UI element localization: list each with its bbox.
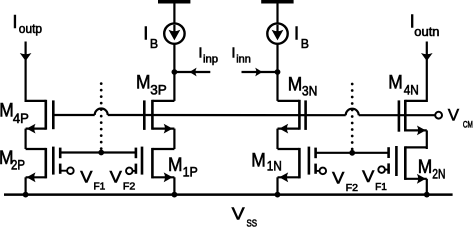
wire: M4P source to M2P drain [25, 129, 27, 149]
wire: node inn down to M3N drain [276, 72, 278, 101]
wire: M1P source to rail [173, 177, 175, 194]
terminal VF1 right-inner [378, 166, 385, 173]
wire Iinn with arrow [242, 68, 278, 77]
svg-text:F2: F2 [346, 182, 359, 194]
label VF1 left [80, 168, 105, 192]
label Iinn [231, 44, 250, 65]
wire: M1N source to rail [276, 177, 278, 194]
label Ioutp [12, 11, 42, 36]
wire Ioutn with arrow [421, 42, 433, 103]
svg-text:I: I [231, 44, 235, 61]
svg-text:F1: F1 [94, 181, 106, 193]
label M3P [136, 73, 167, 98]
label Iinp [198, 44, 218, 65]
label M1P [168, 155, 198, 179]
transistor M4P [26, 100, 54, 134]
node inn junction [275, 69, 281, 75]
supply bar right [261, 0, 293, 4]
node: right gate junction [349, 150, 355, 156]
svg-text:4P: 4P [13, 111, 29, 126]
supply rail VSS [4, 193, 453, 196]
wire: node inp down to M3P drain [173, 72, 175, 101]
svg-text:I: I [143, 23, 148, 44]
transistor M3P [144, 100, 174, 134]
svg-text:F1: F1 [375, 181, 387, 193]
svg-text:SS: SS [247, 217, 258, 227]
label VSS [232, 204, 257, 230]
svg-text:M: M [251, 151, 265, 172]
label VF2 left [110, 168, 136, 192]
label M4N [388, 73, 419, 98]
transistor M4N [399, 100, 427, 136]
node inp junction [172, 69, 178, 75]
label M2N [418, 157, 446, 181]
wire Ioutp with arrow [20, 42, 32, 103]
svg-text:I: I [198, 44, 202, 61]
svg-text:inn: inn [236, 53, 251, 65]
svg-text:3P: 3P [150, 83, 167, 98]
dotted line left [100, 82, 103, 150]
terminal VF1 left [67, 167, 74, 174]
node: rail junction inner-left [172, 192, 178, 198]
label IB left [143, 23, 158, 52]
node: rail junction inner-right [275, 192, 281, 198]
svg-text:M: M [388, 73, 403, 94]
svg-text:2N: 2N [432, 166, 445, 181]
wire: supply to IB right [276, 3, 278, 24]
wire Iinp with arrow [174, 68, 210, 77]
transistor M3N [278, 100, 306, 134]
svg-text:F2: F2 [123, 181, 136, 193]
node: left gate junction [98, 150, 104, 156]
svg-text:2P: 2P [11, 157, 25, 172]
wire: M2N source to rail [426, 179, 428, 195]
supply bar left [158, 0, 190, 4]
label M2P [0, 148, 25, 172]
label M4P [0, 101, 29, 126]
current source IB right [267, 23, 287, 43]
svg-text:V: V [110, 168, 122, 186]
svg-text:V: V [448, 106, 459, 124]
svg-text:inp: inp [203, 53, 218, 65]
svg-text:1N: 1N [267, 159, 282, 174]
svg-text:B: B [150, 36, 158, 51]
wire: IB right to node inn [276, 44, 278, 72]
svg-text:3N: 3N [302, 83, 318, 98]
svg-text:V: V [332, 169, 344, 187]
label VF1 right [362, 168, 387, 193]
label VF2 right [332, 169, 358, 194]
wire: M3N source to M1N drain [276, 129, 278, 149]
terminal VF2 right-inner [320, 168, 327, 175]
svg-text:M: M [168, 155, 183, 176]
transistor M1N [278, 147, 320, 183]
terminal VF2 left [126, 168, 133, 175]
transistor M2N [385, 146, 427, 184]
wire: M2P source to rail [25, 177, 27, 194]
label Ioutn [410, 11, 440, 40]
label M3N [288, 74, 318, 98]
wire: gate bus left (VF nodes) [60, 151, 136, 153]
transistor M1P [133, 147, 175, 183]
svg-text:4N: 4N [404, 83, 419, 98]
svg-text:I: I [12, 11, 17, 32]
label VCM [448, 106, 473, 130]
svg-text:V: V [80, 168, 92, 186]
svg-text:V: V [232, 204, 245, 224]
label IB right [294, 23, 309, 52]
wire: gate bus right (VF nodes) [316, 152, 389, 154]
svg-text:M: M [0, 101, 14, 122]
transistor M2P [26, 147, 68, 183]
label M1N [251, 151, 281, 174]
wire: cascode gate bus with hops [53, 109, 435, 116]
svg-text:M: M [288, 74, 303, 95]
svg-text:M: M [418, 157, 433, 178]
wire: M3P source to M1P drain [173, 129, 175, 149]
wire: M4N source to M2N drain [426, 130, 428, 149]
node: rail junction left [23, 192, 29, 198]
svg-text:B: B [301, 36, 309, 51]
wire: supply to IB left [173, 3, 175, 24]
svg-text:1P: 1P [183, 164, 198, 179]
svg-text:CM: CM [463, 120, 473, 131]
current source IB left [164, 23, 184, 43]
node: rail junction right [424, 192, 430, 198]
svg-text:I: I [294, 23, 299, 44]
dotted line right [351, 83, 354, 151]
svg-text:M: M [136, 73, 151, 94]
terminal VCM [435, 112, 442, 119]
wire: IB left to node inp [173, 44, 175, 72]
svg-text:outp: outp [19, 21, 42, 36]
svg-text:V: V [362, 168, 374, 186]
svg-text:outn: outn [414, 25, 439, 39]
